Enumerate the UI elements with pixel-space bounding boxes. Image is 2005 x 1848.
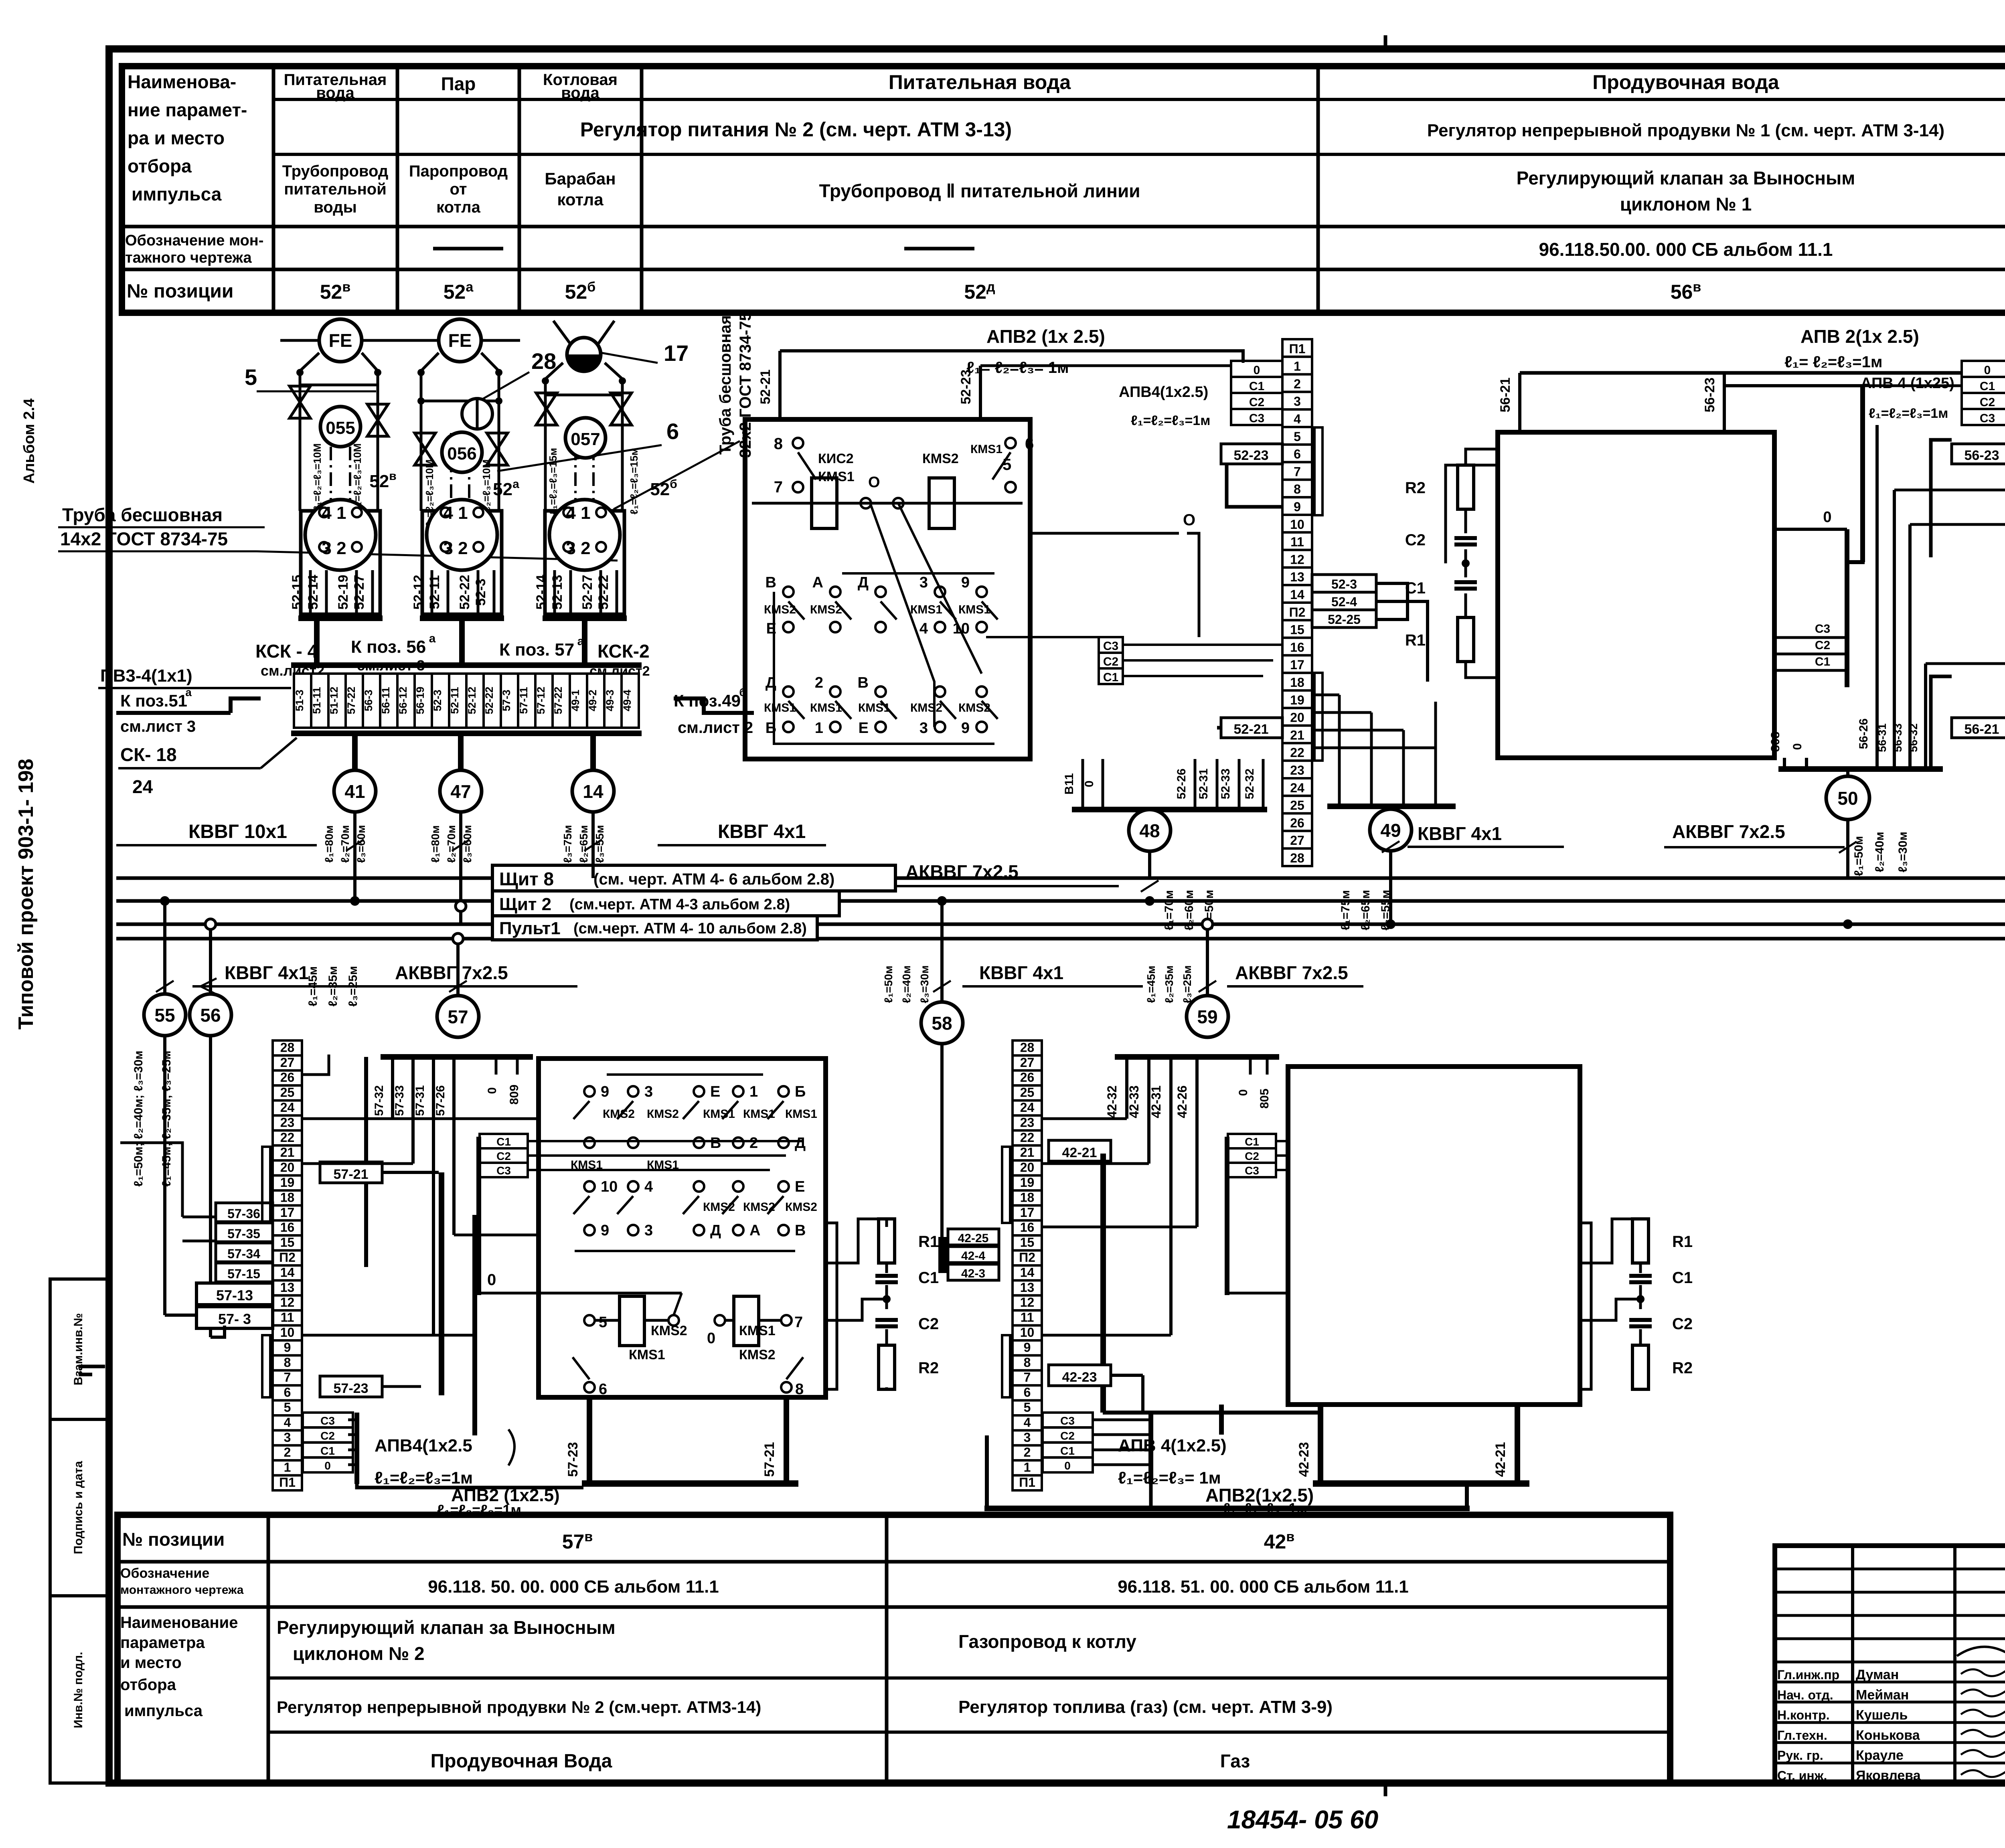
svg-text:Питательная вода: Питательная вода bbox=[889, 71, 1071, 93]
svg-text:14: 14 bbox=[280, 1265, 295, 1279]
svg-text:23: 23 bbox=[1290, 763, 1304, 777]
svg-text:В: В bbox=[795, 1222, 806, 1239]
svg-text:16: 16 bbox=[1020, 1220, 1035, 1235]
svg-text:С1: С1 bbox=[496, 1136, 511, 1148]
svg-text:ℓ₁=50м; ℓ₂=40м; ℓ₃=30м: ℓ₁=50м; ℓ₂=40м; ℓ₃=30м bbox=[132, 1051, 145, 1187]
wire 49 to bus bbox=[1389, 851, 1392, 924]
svg-text:96.118.50.00. 000 СБ альбо: 96.118.50.00. 000 СБ альбом 11.1 bbox=[1539, 239, 1833, 260]
svg-text:3 2: 3 2 bbox=[443, 538, 468, 558]
svg-text:57-11: 57-11 bbox=[518, 687, 530, 714]
svg-text:ℓ₂=60м: ℓ₂=60м bbox=[1183, 890, 1196, 930]
svg-text:10: 10 bbox=[1290, 517, 1304, 532]
svg-text:26: 26 bbox=[1020, 1070, 1035, 1085]
valve col3 right bbox=[611, 393, 632, 425]
svg-text:57-32: 57-32 bbox=[373, 1085, 386, 1116]
svg-text:см.лист 3: см.лист 3 bbox=[120, 718, 196, 735]
O wire of box56 bbox=[1774, 528, 1847, 531]
svg-text:С2: С2 bbox=[1980, 396, 1995, 409]
svg-text:17: 17 bbox=[1290, 658, 1304, 672]
svg-text:4 1: 4 1 bbox=[443, 503, 468, 523]
level sensor ball col3 bbox=[567, 338, 601, 371]
svg-text:0: 0 bbox=[487, 1271, 496, 1289]
svg-text:Кушель: Кушель bbox=[1856, 1708, 1908, 1723]
svg-text:Е: Е bbox=[859, 720, 869, 737]
svg-text:ℓ₁=ℓ₂=ℓ₃=1м: ℓ₁=ℓ₂=ℓ₃=1м bbox=[1869, 406, 1948, 421]
svg-text:16: 16 bbox=[280, 1220, 295, 1235]
svg-text:С1: С1 bbox=[1060, 1445, 1075, 1457]
svg-text:К поз.49: К поз.49 bbox=[674, 691, 741, 710]
svg-text:7: 7 bbox=[1294, 464, 1301, 479]
svg-text:23: 23 bbox=[280, 1115, 295, 1129]
svg-text:С1: С1 bbox=[1980, 380, 1995, 393]
svg-text:ℓ₂=70м: ℓ₂=70м bbox=[339, 825, 351, 863]
box 56-21 label bbox=[1952, 718, 2005, 738]
cable circle 14 bbox=[590, 736, 596, 770]
svg-text:питательной: питательной bbox=[284, 180, 387, 198]
svg-text:56-3: 56-3 bbox=[363, 690, 375, 711]
svg-text:С2: С2 bbox=[1249, 396, 1264, 409]
svg-text:14: 14 bbox=[1020, 1265, 1035, 1279]
svg-text:11: 11 bbox=[1021, 1310, 1034, 1325]
wire 56 from bus bbox=[209, 924, 212, 994]
svg-text:Н.контр.: Н.контр. bbox=[1777, 1708, 1830, 1723]
wires below box52 to bar48 bbox=[1072, 807, 1267, 812]
svg-text:ℓ₁=50м: ℓ₁=50м bbox=[882, 965, 895, 1003]
svg-text:24: 24 bbox=[132, 776, 153, 797]
svg-text:С3: С3 bbox=[1980, 412, 1995, 425]
cable circle 58 bbox=[921, 1002, 963, 1044]
svg-text:СК- 18: СК- 18 bbox=[120, 744, 177, 765]
svg-text:ℓ₃=30м: ℓ₃=30м bbox=[1896, 832, 1910, 872]
top header table outline bbox=[122, 66, 2005, 313]
svg-text:К поз. 57: К поз. 57 bbox=[499, 640, 574, 660]
title block signature rows bbox=[1775, 1568, 2005, 1571]
wire 48 to bus bbox=[1145, 896, 1154, 906]
cable circle 59 bbox=[1187, 996, 1228, 1037]
cable circle 48 bbox=[1148, 812, 1151, 878]
svg-text:6: 6 bbox=[1294, 447, 1301, 461]
svg-text:18: 18 bbox=[1290, 675, 1304, 690]
svg-text:0: 0 bbox=[1064, 1459, 1071, 1472]
svg-text:Гл.инж.пр: Гл.инж.пр bbox=[1777, 1668, 1839, 1682]
matrix frame lower bbox=[607, 1073, 763, 1076]
svg-text:28: 28 bbox=[531, 348, 556, 374]
svg-text:Регулятор питания № 2 (см.: Регулятор питания № 2 (см. черт. АТМ 3-1… bbox=[580, 118, 1012, 141]
svg-text:КМS1: КМS1 bbox=[910, 603, 942, 616]
svg-text:11: 11 bbox=[281, 1310, 294, 1325]
svg-text:Щит 2: Щит 2 bbox=[499, 895, 551, 914]
svg-text:56-32: 56-32 bbox=[1907, 723, 1920, 752]
mid bus line box52 bbox=[752, 502, 1023, 505]
svg-text:С1: С1 bbox=[1249, 380, 1264, 393]
svg-text:КВВГ 4х1: КВВГ 4х1 bbox=[718, 821, 806, 842]
svg-text:КМS1: КМS1 bbox=[958, 603, 990, 616]
svg-text:О: О bbox=[868, 474, 880, 491]
svg-text:57-33: 57-33 bbox=[393, 1085, 406, 1116]
cable circle 50 bbox=[1846, 772, 1849, 878]
lead from col1 to strip bbox=[314, 621, 320, 665]
left ladder wires 55 56 to 57-strip bbox=[163, 1036, 166, 1315]
svg-text:3: 3 bbox=[1294, 394, 1301, 409]
svg-text:49-3: 49-3 bbox=[604, 690, 616, 711]
svg-text:ℓ₁=ℓ₂=ℓ₃=1м: ℓ₁=ℓ₂=ℓ₃=1м bbox=[1131, 413, 1210, 428]
42 strip left boxes bbox=[948, 1229, 999, 1245]
svg-text:Рук. гр.: Рук. гр. bbox=[1777, 1748, 1823, 1763]
svg-text:С1: С1 bbox=[1103, 671, 1118, 684]
svg-text:КВВГ 4х1: КВВГ 4х1 bbox=[979, 962, 1063, 983]
svg-text:27: 27 bbox=[1020, 1055, 1035, 1070]
svg-text:7: 7 bbox=[1024, 1370, 1031, 1384]
wires bar under 59 bbox=[1115, 1054, 1279, 1060]
capacitor C2 of 56 bbox=[1464, 509, 1467, 533]
svg-text:3: 3 bbox=[919, 574, 928, 591]
svg-text:КВВГ 4х1: КВВГ 4х1 bbox=[225, 962, 309, 983]
bottom table verticals bbox=[267, 1515, 270, 1783]
svg-text:№ позиции: № позиции bbox=[127, 281, 233, 302]
wire 50 to bus bbox=[1843, 919, 1853, 929]
instrument circle 057 bbox=[565, 418, 606, 458]
56-23 box wire bbox=[1931, 440, 1952, 557]
svg-text:Ст. инж.: Ст. инж. bbox=[1777, 1769, 1827, 1783]
wire 58 ladder bbox=[940, 1044, 944, 1255]
wire 56-21 from box56 top bbox=[1518, 373, 1521, 432]
shield2 label box bbox=[492, 891, 839, 916]
svg-text:П2: П2 bbox=[1289, 605, 1306, 619]
valve col2 right bbox=[487, 433, 508, 465]
matrix frame lines box52 bbox=[774, 592, 994, 744]
svg-text:R1: R1 bbox=[918, 1233, 939, 1251]
relay coils lower bbox=[620, 1296, 644, 1346]
svg-text:21: 21 bbox=[280, 1145, 295, 1160]
svg-text:АПВ 4 (1х25): АПВ 4 (1х25) bbox=[1861, 375, 1954, 392]
svg-text:КВВГ 10х1: КВВГ 10х1 bbox=[188, 821, 287, 842]
C boxes left of lower box bbox=[480, 1134, 528, 1148]
svg-text:52-19: 52-19 bbox=[336, 575, 351, 610]
svg-text:52-3: 52-3 bbox=[473, 579, 488, 606]
svg-text:56-33: 56-33 bbox=[1892, 723, 1904, 752]
svg-text:импульса: импульса bbox=[124, 1702, 203, 1720]
svg-text:Регулирующий клапан за Вы: Регулирующий клапан за Выносным bbox=[277, 1617, 616, 1638]
bracket left of lower 42 strip lower bbox=[1002, 1335, 1010, 1397]
svg-text:С3: С3 bbox=[496, 1164, 511, 1177]
svg-text:Регулятор непрерывной продув: Регулятор непрерывной продувки № 2 (см.ч… bbox=[277, 1698, 761, 1716]
svg-text:Пульт1: Пульт1 bbox=[499, 919, 561, 938]
svg-text:805: 805 bbox=[1258, 1089, 1271, 1109]
svg-text:26: 26 bbox=[280, 1070, 295, 1085]
svg-text:52-22: 52-22 bbox=[483, 686, 495, 714]
terminal strip 42 lower bbox=[1013, 1040, 1042, 1055]
svg-text:Пар: Пар bbox=[441, 73, 476, 94]
svg-text:АКВВГ 7х2.5: АКВВГ 7х2.5 bbox=[1235, 962, 1348, 983]
svg-text:10: 10 bbox=[953, 620, 970, 637]
svg-text:24: 24 bbox=[1290, 781, 1304, 795]
svg-text:ℓ₃=25м: ℓ₃=25м bbox=[346, 966, 360, 1007]
wire 52-23 from box top bbox=[979, 366, 982, 419]
svg-text:8: 8 bbox=[1294, 482, 1301, 496]
svg-text:монтажного чертежа: монтажного чертежа bbox=[120, 1583, 244, 1597]
svg-text:2: 2 bbox=[749, 1135, 758, 1152]
relay logic box 52 bbox=[745, 419, 1030, 759]
wire 58 from bus bbox=[940, 901, 944, 1002]
svg-text:C1: C1 bbox=[918, 1269, 939, 1287]
svg-text:42-23: 42-23 bbox=[1062, 1370, 1097, 1385]
svg-text:0: 0 bbox=[707, 1330, 715, 1347]
svg-text:Регулирующий клапан за Вы: Регулирующий клапан за Выносным bbox=[1517, 168, 1855, 188]
bar under box56 bbox=[1778, 766, 1943, 772]
svg-text:9: 9 bbox=[601, 1083, 609, 1100]
svg-text:49: 49 bbox=[1380, 820, 1401, 841]
valve col2 left bbox=[415, 433, 435, 465]
svg-text:19: 19 bbox=[1020, 1175, 1035, 1190]
APV4 drop wire right bbox=[1860, 386, 1865, 562]
svg-text:ℓ₁=75м: ℓ₁=75м bbox=[1339, 890, 1352, 930]
wire 14 to bus bbox=[591, 811, 595, 878]
svg-text:отбора: отбора bbox=[128, 156, 192, 176]
svg-text:56-31: 56-31 bbox=[1876, 723, 1888, 752]
svg-text:С2: С2 bbox=[1103, 655, 1118, 668]
svg-text:Крауле: Крауле bbox=[1856, 1748, 1904, 1763]
svg-text:КМS1: КМS1 bbox=[858, 701, 890, 715]
svg-text:15: 15 bbox=[1290, 623, 1304, 637]
O wire extension to C3 row bbox=[1198, 581, 1201, 637]
svg-text:9: 9 bbox=[961, 574, 970, 591]
svg-text:52-21: 52-21 bbox=[758, 370, 773, 405]
bottom C boxes of 42 strip bbox=[1043, 1413, 1093, 1427]
margin dash marks bbox=[79, 1365, 105, 1368]
svg-text:тажного чертежа: тажного чертежа bbox=[125, 249, 252, 266]
C boxes 42 group bbox=[1228, 1134, 1276, 1148]
wires strip52 bottom to 49 bbox=[1389, 866, 1392, 878]
svg-text:К поз.51: К поз.51 bbox=[120, 691, 187, 710]
svg-text:52-23: 52-23 bbox=[1234, 448, 1269, 463]
svg-text:П2: П2 bbox=[279, 1250, 296, 1265]
svg-text:ℓ₂=40м: ℓ₂=40м bbox=[1873, 832, 1886, 872]
fold tick bottom bbox=[1384, 1783, 1387, 1796]
contact matrix box52 bbox=[783, 587, 794, 597]
wire 56-23 from box56 top bbox=[1723, 373, 1726, 432]
svg-text:10: 10 bbox=[1020, 1325, 1035, 1340]
terminal strip 57 lower bbox=[273, 1040, 302, 1055]
svg-text:52-15: 52-15 bbox=[290, 575, 305, 610]
svg-text:Думан: Думан bbox=[1856, 1667, 1899, 1682]
svg-text:52-14: 52-14 bbox=[534, 575, 549, 609]
svg-text:52-21: 52-21 bbox=[1234, 722, 1269, 737]
svg-text:С2: С2 bbox=[1815, 639, 1830, 652]
strip right boxes 52-3 52-4 52-25 bbox=[1312, 575, 1376, 592]
svg-text:21: 21 bbox=[1290, 728, 1304, 742]
svg-text:52-26: 52-26 bbox=[1175, 769, 1188, 800]
svg-text:15: 15 bbox=[280, 1235, 295, 1250]
svg-text:51-3: 51-3 bbox=[294, 690, 306, 711]
lead from col3 to strip bbox=[582, 621, 587, 665]
svg-text:14х2 ГОСТ 8734-75: 14х2 ГОСТ 8734-75 bbox=[60, 528, 228, 549]
svg-text:56-21: 56-21 bbox=[1498, 378, 1513, 413]
svg-text:(см.черт. АТМ 4-3 альбом: (см.черт. АТМ 4-3 альбом 2.8) bbox=[569, 896, 790, 913]
svg-text:КМS1: КМS1 bbox=[703, 1107, 735, 1121]
fold tick top bbox=[1384, 35, 1387, 49]
svg-text:Регулятор непрерывной проду: Регулятор непрерывной продувки № 1 (см. … bbox=[1427, 121, 1944, 140]
wire APV2 run upper bbox=[780, 351, 1243, 363]
wire 52-23 down to strip bbox=[1227, 464, 1282, 507]
svg-text:Инв.№ подл.: Инв.№ подл. bbox=[72, 1652, 85, 1729]
svg-text:49-2: 49-2 bbox=[587, 690, 599, 711]
svg-text:56-23: 56-23 bbox=[1964, 448, 1999, 463]
svg-text:1: 1 bbox=[1294, 359, 1301, 374]
bottom C boxes of 57 strip bbox=[303, 1413, 353, 1427]
svg-text:4: 4 bbox=[644, 1178, 653, 1195]
svg-text:52-3: 52-3 bbox=[1331, 577, 1357, 591]
svg-text:6: 6 bbox=[284, 1385, 291, 1400]
svg-text:56-23: 56-23 bbox=[1702, 378, 1717, 413]
bus line pult1 bbox=[116, 923, 2005, 926]
svg-text:5: 5 bbox=[1003, 456, 1011, 474]
bus line shield8 bbox=[116, 876, 2005, 880]
C wires into box42 bbox=[1276, 1140, 1403, 1142]
valve col3 left bbox=[536, 393, 557, 425]
wires 0 809 under 57bar bbox=[495, 1060, 498, 1075]
svg-text:42-21: 42-21 bbox=[1493, 1442, 1508, 1477]
svg-text:57-13: 57-13 bbox=[216, 1287, 253, 1304]
svg-text:26: 26 bbox=[1290, 816, 1304, 830]
bracket right of left P1 strip lower bbox=[1314, 673, 1322, 761]
svg-text:14: 14 bbox=[583, 781, 604, 802]
svg-text:Мейман: Мейман bbox=[1856, 1687, 1909, 1702]
svg-text:57-23: 57-23 bbox=[334, 1381, 369, 1396]
svg-text:А: А bbox=[812, 574, 823, 591]
top table horizontals bbox=[273, 98, 2005, 101]
svg-text:КМS1: КМS1 bbox=[810, 701, 842, 715]
svg-text:КВВГ 4х1: КВВГ 4х1 bbox=[1418, 823, 1502, 844]
svg-text:C1: C1 bbox=[1672, 1269, 1693, 1287]
terminal strip P1 left bbox=[1282, 339, 1312, 357]
wire 52-21 from box top bbox=[778, 351, 782, 419]
svg-text:6: 6 bbox=[666, 419, 679, 444]
svg-text:Газ: Газ bbox=[1220, 1751, 1250, 1771]
svg-text:КМS2: КМS2 bbox=[958, 701, 990, 715]
svg-text:52-11: 52-11 bbox=[427, 575, 442, 609]
svg-text:П1: П1 bbox=[1289, 342, 1306, 356]
57 strip inner wires bbox=[302, 1117, 539, 1120]
42 strip inner wires bbox=[1042, 1117, 1127, 1120]
svg-text:FE: FE bbox=[329, 330, 352, 351]
svg-text:АКВВГ 7х2.5: АКВВГ 7х2.5 bbox=[905, 861, 1019, 882]
resistor R1 of 56 bbox=[1458, 617, 1474, 662]
svg-text:R2: R2 bbox=[1672, 1359, 1693, 1377]
title block signature scribbles bbox=[1961, 1669, 2005, 1676]
svg-text:5: 5 bbox=[1024, 1400, 1031, 1415]
svg-text:ℓ₁=45м; ℓ₂=35м; ℓ₃=25м: ℓ₁=45м; ℓ₂=35м; ℓ₃=25м bbox=[160, 1051, 173, 1187]
svg-text:10: 10 bbox=[280, 1325, 295, 1340]
42-21 label box bbox=[1049, 1140, 1111, 1161]
svg-text:809: 809 bbox=[508, 1085, 521, 1105]
svg-text:24: 24 bbox=[280, 1100, 295, 1115]
svg-text:Щит 8: Щит 8 bbox=[499, 868, 554, 889]
svg-text:4: 4 bbox=[1294, 412, 1301, 426]
svg-text:1: 1 bbox=[284, 1460, 291, 1475]
svg-text:котла: котла bbox=[436, 198, 480, 216]
cable circle 41 bbox=[352, 736, 358, 770]
cable circle 47 bbox=[458, 736, 464, 770]
sensor lead wires at x=1458 bbox=[553, 570, 556, 615]
svg-text:2: 2 bbox=[284, 1445, 291, 1459]
svg-text:R1: R1 bbox=[1672, 1233, 1693, 1251]
svg-text:4 1: 4 1 bbox=[322, 503, 346, 523]
bottom table horizontals bbox=[117, 1560, 1670, 1564]
svg-text:56-12: 56-12 bbox=[397, 686, 409, 714]
svg-text:96.118. 50. 00. 000 СБ: 96.118. 50. 00. 000 СБ альбом 11.1 bbox=[428, 1577, 719, 1597]
svg-text:Е: Е bbox=[710, 1083, 720, 1100]
svg-text:8: 8 bbox=[774, 435, 783, 453]
svg-text:0: 0 bbox=[1984, 364, 1991, 377]
svg-text:0: 0 bbox=[1791, 743, 1804, 750]
bus line lower bbox=[116, 937, 2005, 941]
svg-text:Паропровод: Паропровод bbox=[409, 162, 508, 180]
svg-text:17: 17 bbox=[664, 340, 689, 366]
O bus lower42 bbox=[1225, 1137, 1229, 1295]
wire 52-21 down joins 52-31 drop bbox=[1217, 726, 1221, 730]
svg-text:Конькова: Конькова bbox=[1856, 1728, 1920, 1743]
bottom table outline bbox=[117, 1515, 1670, 1783]
sensor lead wires at x=849 bbox=[309, 570, 312, 615]
bracket left of lower 42 strip upper bbox=[1002, 1147, 1010, 1223]
svg-text:циклоном № 2: циклоном № 2 bbox=[293, 1643, 425, 1664]
svg-text:4: 4 bbox=[1024, 1415, 1031, 1429]
svg-text:3: 3 bbox=[644, 1083, 653, 1100]
pult1 label box bbox=[492, 916, 817, 940]
sensor connector head at x=1152 bbox=[422, 511, 502, 614]
svg-text:18: 18 bbox=[1020, 1190, 1035, 1204]
svg-text:15: 15 bbox=[1020, 1235, 1035, 1250]
svg-text:отбора: отбора bbox=[120, 1676, 176, 1694]
svg-text:42-4: 42-4 bbox=[961, 1249, 985, 1263]
sensor piping col3 bbox=[545, 363, 563, 511]
svg-text:1: 1 bbox=[1024, 1460, 1031, 1475]
svg-text:(см. черт. АТМ 4- 6 альбом: (см. черт. АТМ 4- 6 альбом 2.8) bbox=[593, 870, 834, 888]
svg-text:11: 11 bbox=[1290, 535, 1304, 549]
svg-text:воды: воды bbox=[314, 198, 357, 216]
svg-text:57-22: 57-22 bbox=[345, 686, 357, 714]
svg-text:АПВ4(1х2.5): АПВ4(1х2.5) bbox=[1119, 384, 1208, 401]
wires bar under 57 bbox=[381, 1054, 533, 1060]
blank instrument box 56 bbox=[1498, 432, 1774, 758]
svg-text:КМS2: КМS2 bbox=[764, 603, 796, 616]
svg-text:18454- 05 60: 18454- 05 60 bbox=[1227, 1805, 1378, 1834]
svg-text:Гл.техн.: Гл.техн. bbox=[1777, 1728, 1827, 1743]
svg-text:котла: котла bbox=[557, 190, 604, 209]
svg-text:В: В bbox=[766, 574, 776, 591]
svg-text:49-1: 49-1 bbox=[569, 690, 581, 711]
svg-text:51-11: 51-11 bbox=[311, 687, 323, 714]
svg-text:55: 55 bbox=[154, 1005, 175, 1026]
bracket left of lower 57 strip upper bbox=[262, 1147, 270, 1223]
svg-text:28: 28 bbox=[1020, 1040, 1035, 1055]
svg-text:20: 20 bbox=[1290, 710, 1304, 725]
wires box57 bottom bbox=[587, 1397, 592, 1483]
svg-text:КМS2: КМS2 bbox=[647, 1107, 679, 1121]
svg-text:057: 057 bbox=[571, 429, 600, 449]
C3 C2 C1 exit boxes box52 bbox=[1099, 637, 1123, 653]
svg-text:параметра: параметра bbox=[120, 1634, 205, 1652]
svg-text:52-25: 52-25 bbox=[1328, 612, 1361, 627]
svg-text:8: 8 bbox=[1024, 1355, 1031, 1370]
RC chain right of box57 bbox=[826, 1223, 837, 1389]
strip left boxes 0 C1 C2 C3 bbox=[1231, 361, 1282, 377]
svg-text:FE: FE bbox=[448, 330, 472, 351]
blank instrument box 42 bbox=[1288, 1067, 1580, 1405]
svg-text:С2: С2 bbox=[1245, 1150, 1259, 1162]
svg-text:57-22: 57-22 bbox=[552, 686, 564, 714]
svg-text:3: 3 bbox=[919, 720, 928, 737]
